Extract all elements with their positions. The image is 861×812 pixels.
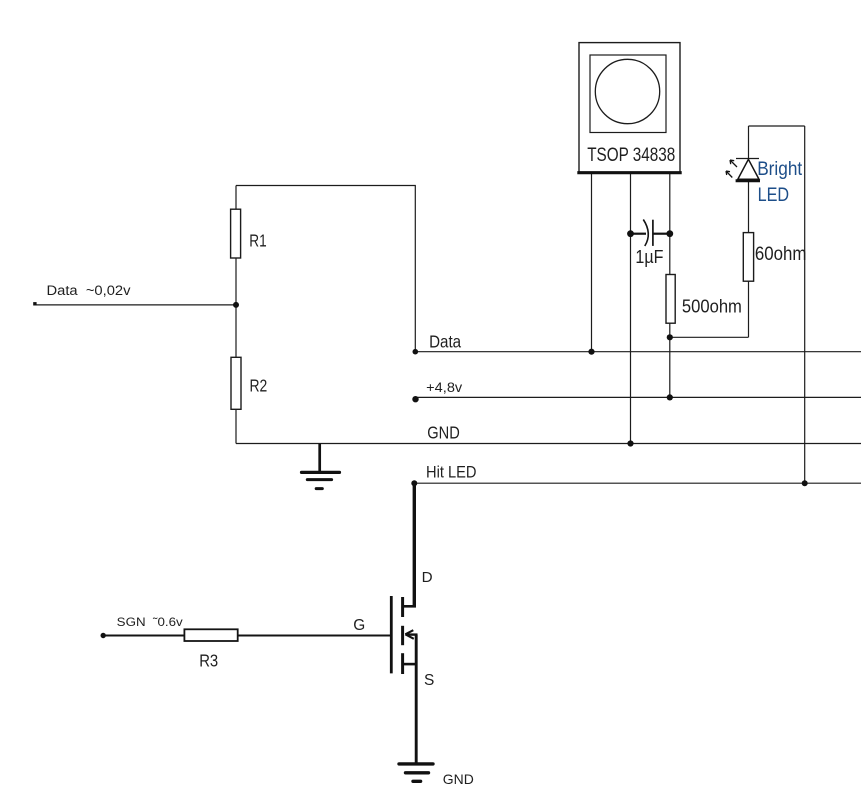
svg-text:GND: GND xyxy=(427,423,460,443)
svg-text:Hit LED: Hit LED xyxy=(426,463,477,481)
svg-text:R2: R2 xyxy=(250,376,268,396)
svg-text:D: D xyxy=(422,569,433,586)
svg-text:SGN ˜0.6v: SGN ˜0.6v xyxy=(117,615,184,629)
svg-text:TSOP 34838: TSOP 34838 xyxy=(587,145,675,166)
svg-text:500ohm: 500ohm xyxy=(682,297,742,318)
svg-text:1µF: 1µF xyxy=(635,246,663,267)
svg-text:+4,8v: +4,8v xyxy=(426,380,463,396)
svg-text:R1: R1 xyxy=(249,230,266,250)
svg-text:Bright: Bright xyxy=(757,158,803,180)
svg-text:Data ~0,02v: Data ~0,02v xyxy=(47,283,131,298)
svg-text:S: S xyxy=(424,672,434,689)
svg-text:G: G xyxy=(353,617,365,634)
svg-text:Data: Data xyxy=(429,332,461,352)
svg-text:60ohm: 60ohm xyxy=(755,244,807,265)
svg-text:R3: R3 xyxy=(199,650,218,670)
svg-text:GND: GND xyxy=(443,772,474,787)
svg-text:LED: LED xyxy=(758,184,790,206)
